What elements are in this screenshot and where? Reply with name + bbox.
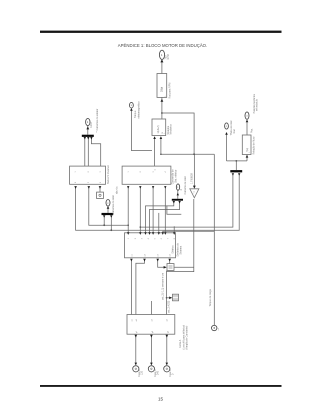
svg-text:Rad: Rad — [233, 128, 236, 133]
svg-text:(Amplitude Constante): (Amplitude Constante) — [186, 326, 189, 350]
svg-text:Correntes do rotor: Correntes do rotor — [112, 195, 115, 215]
svg-text:Elétrica: Elétrica — [172, 245, 175, 254]
svg-text:Mecânico: Mecânico — [170, 124, 173, 135]
svg-text:Correntes do estator: Correntes do estator — [96, 109, 99, 131]
svg-text:3: 3 — [180, 189, 183, 191]
svg-text:eletromagnético: eletromagnético — [137, 101, 140, 119]
svg-text:Sist. elétrico: Sist. elétrico — [175, 169, 178, 183]
svg-text:2: 2 — [96, 131, 98, 133]
svg-text:30/pi: 30/pi — [161, 86, 164, 92]
svg-text:1/(Js+f): 1/(Js+f) — [157, 125, 160, 133]
svg-text:abc-dq: abc-dq — [115, 186, 118, 194]
svg-text:T: T — [218, 329, 220, 332]
svg-text:1.7/6383B: 1.7/6383B — [190, 173, 193, 184]
svg-text:240: 240 — [156, 370, 159, 375]
svg-text:out_2 AZ03: out_2 AZ03 — [168, 300, 171, 313]
svg-text:Pos.: Pos. — [250, 128, 253, 133]
svg-text:Rad para RPM: Rad para RPM — [168, 83, 171, 99]
svg-text:Torque de carga: Torque de carga — [209, 289, 212, 307]
svg-text:em módulo: em módulo — [256, 99, 259, 111]
svg-text:Banco 5: Inversor: Banco 5: Inversor — [107, 165, 110, 184]
svg-text:Relação de fluxo: Relação de fluxo — [252, 136, 255, 154]
svg-text:0: 0 — [172, 373, 175, 375]
svg-text:in: in — [155, 169, 157, 171]
svg-text:120: 120 — [141, 370, 144, 375]
svg-text:RPM: RPM — [167, 54, 170, 59]
svg-text:f(u): f(u) — [246, 148, 249, 152]
svg-text:out_2 [-1,1] sensors e um: out_2 [-1,1] sensors e um — [161, 273, 164, 300]
svg-text:Corrente de rotor: Corrente de rotor — [184, 176, 187, 194]
svg-text:APÊNDICE 1: BLOCO MOTOR DE IND: APÊNDICE 1: BLOCO MOTOR DE INDUÇÃO. — [118, 43, 207, 48]
svg-text:Sistema: Sistema — [180, 245, 183, 254]
svg-text:15: 15 — [158, 397, 164, 402]
svg-text:UMD: UMD — [90, 122, 93, 128]
